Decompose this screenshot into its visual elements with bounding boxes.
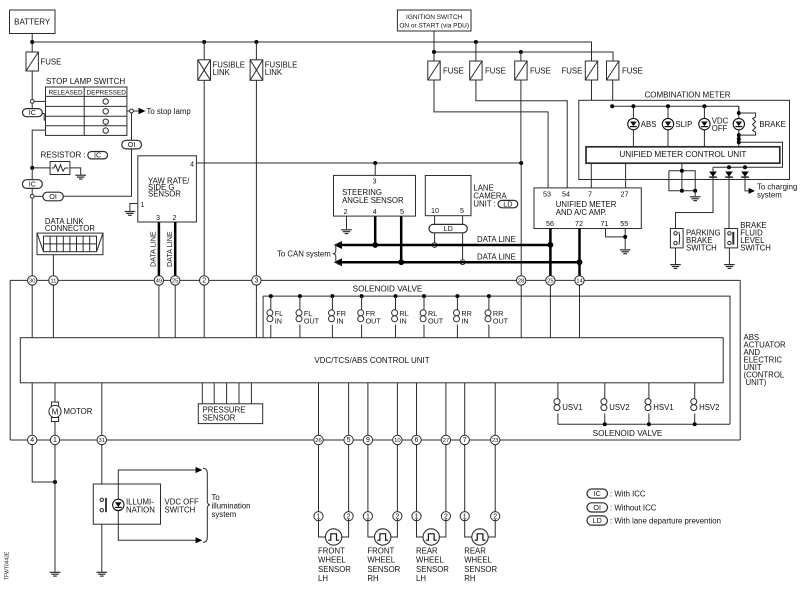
wire to ground	[694, 191, 696, 197]
svg-text:72: 72	[575, 219, 583, 228]
svg-text:SOLENOID VALVE: SOLENOID VALVE	[593, 429, 663, 438]
node steering pin3 junction	[373, 161, 377, 165]
wire control unit to pin27	[445, 383, 447, 440]
svg-text:6: 6	[415, 437, 419, 444]
node lane pin10 open circle	[432, 243, 437, 248]
node brake resistor bottom	[737, 133, 741, 137]
pin 1	[50, 435, 59, 444]
svg-text:FRONT: FRONT	[318, 547, 345, 556]
svg-text:WHEEL: WHEEL	[416, 556, 444, 565]
node battery junction	[30, 40, 34, 44]
fuse F5	[607, 61, 643, 80]
svg-text:IGNITION SWITCH: IGNITION SWITCH	[406, 14, 463, 21]
unified meter and A/C amp	[534, 188, 641, 229]
fuse F3	[515, 52, 551, 80]
solenoid HSV2	[691, 383, 720, 425]
wire pin1 to ground	[54, 444, 56, 572]
ground (umcu)	[690, 197, 701, 201]
wire lane pin5	[462, 216, 464, 260]
svg-text:IC: IC	[29, 180, 36, 189]
wire OI down and left	[63, 149, 131, 196]
fuse F0 battery fuse	[26, 52, 61, 71]
diode D2	[725, 172, 733, 178]
rear wheel sensor LH	[412, 444, 451, 583]
ground (pin1)	[50, 572, 61, 576]
fusible link 1	[198, 42, 245, 80]
wire fuse2 to pin54	[476, 80, 567, 188]
svg-text:FRONT: FRONT	[367, 547, 394, 556]
svg-text:LH: LH	[416, 574, 426, 583]
ground (yaw sensor)	[125, 212, 136, 216]
wire pin2 to control unit	[203, 285, 205, 338]
wire amp pin55 to ground	[624, 229, 626, 250]
wire pin3 to control unit	[255, 285, 257, 338]
svg-text:IN: IN	[461, 317, 468, 326]
svg-text:VDC/TCS/ABS CONTROL UNIT: VDC/TCS/ABS CONTROL UNIT	[314, 356, 429, 365]
svg-text:26: 26	[315, 438, 322, 444]
node diode3 anode	[743, 165, 747, 169]
node brake resistor top	[737, 111, 741, 115]
svg-text:OI: OI	[49, 192, 57, 201]
node fusible link 2 junction	[254, 40, 258, 44]
svg-text:55: 55	[620, 219, 628, 228]
fuse F4	[562, 61, 598, 80]
svg-text:2: 2	[344, 207, 348, 216]
svg-text:30: 30	[29, 279, 36, 285]
CAN line 2	[341, 261, 579, 264]
wire row4 to left bus	[32, 130, 45, 168]
pin 28	[517, 276, 526, 285]
svg-text:SENSOR: SENSOR	[464, 565, 497, 574]
svg-text:LD: LD	[444, 224, 453, 233]
node steering pin5 junction	[398, 259, 404, 265]
svg-text:31: 31	[99, 438, 106, 444]
wire solenoid return bus	[558, 423, 730, 425]
svg-text:COMBINATION METER: COMBINATION METER	[644, 90, 730, 99]
svg-text:ABS: ABS	[641, 120, 657, 129]
wire resistor left	[32, 167, 50, 169]
fuse F1	[428, 52, 464, 80]
wire row2 to stop lamp	[127, 110, 130, 112]
unified meter control unit	[586, 147, 780, 163]
capsule LD (lane pins)	[429, 224, 467, 233]
wire VDC lamp vertical	[703, 106, 705, 147]
svg-text:2: 2	[173, 213, 177, 222]
wire fusible link1 to pin 2	[203, 80, 205, 280]
svg-text:SENSOR: SENSOR	[203, 414, 236, 423]
pin 9	[363, 435, 372, 444]
svg-text:SENSOR: SENSOR	[416, 565, 449, 574]
wire brake lamp to diode bus	[713, 142, 783, 167]
wire pin30 to control unit	[31, 285, 33, 338]
arrow to stop lamp	[139, 108, 146, 114]
pin 6	[412, 435, 421, 444]
svg-text:TFWT0442E: TFWT0442E	[5, 551, 11, 580]
node CAN1 pin56	[548, 242, 554, 248]
pin 5	[344, 435, 353, 444]
combination meter box	[579, 90, 790, 179]
pin 3	[252, 276, 261, 285]
svg-text:WHEEL: WHEEL	[367, 556, 395, 565]
wire ABS lamp vertical	[632, 106, 634, 147]
svg-text:OUT: OUT	[304, 317, 320, 326]
wire control unit to pin4	[31, 383, 33, 440]
VDC/TCS/ABS control unit	[20, 338, 723, 383]
solenoid HSV1	[645, 383, 674, 425]
svg-text:9: 9	[366, 437, 370, 444]
wire diode1 to parking brake switch	[676, 177, 714, 228]
svg-text:54: 54	[562, 189, 570, 198]
svg-text:SENSOR: SENSOR	[318, 565, 351, 574]
node umcu gnd right	[693, 189, 697, 193]
svg-text:To CAN system: To CAN system	[277, 249, 331, 258]
svg-text:STOP LAMP SWITCH: STOP LAMP SWITCH	[46, 77, 125, 86]
solenoid USV2	[601, 383, 630, 425]
svg-text:RESISTOR :: RESISTOR :	[41, 151, 86, 160]
wire control unit to pin5	[348, 383, 350, 440]
svg-text:IC: IC	[594, 489, 601, 498]
legend capsule OI	[587, 503, 657, 513]
pin 27	[441, 435, 450, 444]
bracket to illumination system	[203, 468, 210, 542]
wire steering pin3 up	[374, 163, 376, 175]
lamp VDC OFF	[699, 118, 710, 129]
wire umcu pin7 to amp	[590, 163, 592, 188]
front wheel sensor LH	[314, 444, 353, 583]
pin 26	[314, 435, 323, 444]
lamp SLIP	[662, 118, 673, 129]
wire bus to IC2	[31, 168, 33, 180]
svg-text:USV1: USV1	[562, 403, 582, 412]
node umcu gnd top	[680, 169, 684, 173]
svg-text:BATTERY: BATTERY	[14, 18, 51, 27]
wire BRAKE lamp vertical	[738, 106, 740, 147]
svg-text:25: 25	[172, 279, 179, 285]
svg-text:REAR: REAR	[416, 547, 438, 556]
svg-text:49: 49	[156, 279, 163, 285]
svg-text:RELEASED: RELEASED	[49, 90, 83, 97]
solenoid FL OUT	[296, 294, 320, 338]
capsule IC (lower)	[22, 180, 42, 189]
node open circle row1	[30, 100, 34, 104]
data link connector	[37, 217, 103, 255]
resistor R1	[41, 151, 108, 175]
wire amp pin56 data	[549, 229, 552, 279]
svg-text:4: 4	[30, 437, 34, 444]
svg-text:OUT: OUT	[493, 317, 509, 326]
solenoid FR IN	[329, 294, 346, 338]
svg-text:7: 7	[588, 189, 592, 198]
wire steering pin4 data	[374, 216, 377, 245]
motor M1	[49, 383, 93, 440]
wire pin4 to pin1 line	[32, 444, 55, 482]
wire solenoid left leg	[262, 296, 264, 338]
svg-text:OFF: OFF	[712, 124, 728, 133]
pin 25 (amp)	[546, 276, 555, 285]
wire fuse0 down to stop lamp switch	[31, 71, 33, 100]
wire control unit to pin10	[396, 383, 398, 440]
svg-text:SLIP: SLIP	[675, 120, 692, 129]
pressure sensor	[198, 383, 262, 424]
svg-text:SWITCH: SWITCH	[165, 506, 196, 515]
illumination lamp	[113, 499, 124, 510]
pin 14	[575, 276, 584, 285]
wire IC to row3	[42, 114, 45, 121]
svg-text:3: 3	[156, 213, 160, 222]
solenoid FR OUT	[358, 294, 382, 338]
svg-text:RH: RH	[367, 574, 378, 583]
svg-text:IC: IC	[94, 151, 101, 160]
svg-text:DEPRESSED: DEPRESSED	[87, 90, 127, 97]
svg-text:OI: OI	[593, 503, 601, 512]
svg-text:WHEEL: WHEEL	[318, 556, 346, 565]
svg-text:28: 28	[518, 279, 525, 285]
node lamp bus VDC	[702, 104, 706, 108]
svg-text:3: 3	[254, 278, 258, 285]
wire illumination top arrow	[118, 470, 195, 499]
wire lamp bus	[612, 106, 739, 113]
ABS actuator and electric unit box	[10, 280, 786, 440]
diode D1	[712, 167, 714, 171]
resistor (brake lamp shunt)	[739, 113, 756, 135]
svg-text:USV2: USV2	[609, 403, 629, 412]
svg-text:REAR: REAR	[464, 547, 486, 556]
node HSV2 return	[693, 422, 697, 426]
lamp BRAKE	[733, 118, 744, 129]
wire control unit to pin26	[318, 383, 320, 440]
svg-text:OUT: OUT	[366, 317, 382, 326]
wire illumination bottom arrow	[118, 511, 195, 541]
svg-text:IN: IN	[336, 317, 343, 326]
capsule OI (below stop lamp)	[122, 140, 142, 149]
node open circle to stop lamp	[130, 109, 134, 113]
svg-text:DATA LINE: DATA LINE	[477, 252, 516, 261]
svg-text:FUSE: FUSE	[622, 67, 643, 76]
node ign junction fuse1	[432, 50, 436, 54]
steering angle sensor	[334, 175, 416, 216]
fuse F2	[470, 42, 506, 80]
fusible link 2	[250, 42, 297, 80]
svg-text:LINK: LINK	[265, 68, 283, 77]
svg-text:3: 3	[373, 177, 377, 186]
solenoid RR IN	[454, 294, 472, 338]
svg-text:FUSE: FUSE	[562, 67, 583, 76]
svg-text:MOTOR: MOTOR	[64, 407, 93, 416]
wire control unit to pin31	[101, 383, 103, 440]
wire pin31 to ground	[101, 444, 103, 572]
svg-text:FUSE: FUSE	[485, 67, 506, 76]
wire amp pin71 to pin55	[606, 229, 626, 237]
node lamp bus ABS	[631, 104, 635, 108]
svg-text:SWITCH: SWITCH	[740, 244, 771, 253]
svg-text:DATA LINE: DATA LINE	[149, 231, 158, 267]
pin 23	[491, 435, 500, 444]
legend capsule LD	[587, 516, 721, 526]
pin 25 (yaw)	[171, 276, 180, 285]
node brake lamp lower junctions	[737, 137, 741, 141]
bracket To CAN system	[333, 243, 342, 265]
svg-text:7: 7	[463, 437, 467, 444]
svg-text:SENSOR: SENSOR	[367, 565, 400, 574]
wire pin14 to control unit	[579, 285, 581, 338]
solenoid RL IN	[392, 294, 409, 338]
svg-text:53: 53	[543, 189, 551, 198]
wire diode2 to brake fluid switch	[728, 177, 730, 228]
svg-text:LINK: LINK	[213, 68, 231, 77]
svg-text:5: 5	[460, 206, 464, 215]
wire fuse3 down to pin 28	[520, 80, 522, 163]
svg-text:27: 27	[621, 189, 629, 198]
wire parking brake to ground	[675, 248, 677, 264]
svg-text:LD: LD	[593, 516, 602, 525]
node diode2 anode	[727, 165, 731, 169]
diode D3	[741, 172, 749, 178]
node fuse3 top junction	[519, 50, 523, 54]
svg-text:: With lane departure preventi: : With lane departure prevention	[610, 516, 721, 525]
wire steering pin2 to ground	[346, 216, 348, 229]
ignition switch	[397, 10, 471, 31]
svg-text:UNIT :: UNIT :	[473, 200, 495, 209]
svg-text:system: system	[757, 191, 782, 200]
node pin71/55 junction	[623, 235, 627, 239]
wire data line yaw pin2	[174, 222, 177, 278]
solenoid USV1	[554, 383, 583, 425]
svg-text:RH: RH	[464, 574, 475, 583]
wire IC2 to open circle	[31, 188, 33, 194]
svg-text:56: 56	[546, 219, 554, 228]
parking brake switch	[670, 229, 720, 253]
solenoid FL IN	[267, 294, 283, 338]
wire data line yaw pin3	[158, 222, 161, 278]
node HSV1 return	[647, 422, 651, 426]
svg-text:HSV2: HSV2	[699, 403, 719, 412]
svg-text:OUT: OUT	[428, 317, 444, 326]
svg-text:DATA LINE: DATA LINE	[165, 231, 174, 267]
node umcu gnd bottom	[680, 189, 684, 193]
wire pin25 to control unit	[174, 285, 176, 338]
svg-text:FUSE: FUSE	[530, 67, 551, 76]
svg-text:SWITCH: SWITCH	[686, 244, 717, 253]
wire ignition down	[433, 31, 435, 52]
wire battery to bus	[31, 34, 33, 53]
svg-text:: Without ICC: : Without ICC	[610, 503, 657, 512]
wire dlc to pin 11	[52, 255, 54, 281]
wire yaw pin1 to ground	[130, 204, 138, 212]
wire resistor right to ground	[70, 168, 81, 175]
wire control unit to pin7	[464, 383, 466, 440]
node lamp bus SLIP	[666, 104, 670, 108]
svg-text:27: 27	[443, 438, 450, 444]
svg-text:IN: IN	[400, 317, 407, 326]
svg-text:M: M	[52, 408, 59, 417]
wire amp pin72 data	[578, 229, 581, 279]
svg-text:SENSOR: SENSOR	[148, 190, 181, 199]
stop lamp switch S1	[46, 77, 127, 135]
svg-text:FUSE: FUSE	[443, 67, 464, 76]
svg-text:UNIT): UNIT)	[746, 378, 767, 387]
svg-text:HSV1: HSV1	[653, 403, 673, 412]
node steering pin4 junction	[372, 242, 378, 248]
svg-text:CONNECTOR: CONNECTOR	[45, 224, 95, 233]
CAN line 1	[341, 244, 550, 247]
svg-text:NATION: NATION	[126, 506, 155, 515]
pin 7	[460, 435, 469, 444]
wire control unit to pin23	[494, 383, 496, 440]
node resistor junction	[30, 166, 34, 170]
VDC OFF switch box	[93, 484, 199, 524]
svg-text:4: 4	[373, 207, 377, 216]
wire circle to IC	[31, 103, 33, 108]
svg-text:LD: LD	[503, 199, 512, 208]
svg-text:ANGLE SENSOR: ANGLE SENSOR	[342, 196, 404, 205]
lamp ABS	[628, 118, 639, 129]
svg-text:14: 14	[576, 279, 583, 285]
pin 31	[97, 435, 106, 444]
wire control unit to pin9	[367, 383, 369, 440]
svg-text:5: 5	[400, 207, 404, 216]
svg-text:71: 71	[601, 219, 609, 228]
wire umcu pin27 to amp	[625, 163, 627, 188]
wire top bus y42	[32, 42, 591, 61]
arrow CAN1	[334, 241, 342, 249]
wire left bus down to pin 30	[31, 198, 33, 280]
wire open circle to OI capsule	[34, 195, 43, 197]
svg-text:2: 2	[202, 278, 206, 285]
node lane pin5 open circle	[460, 260, 465, 265]
ground (brake fluid)	[724, 265, 735, 269]
pin 11	[49, 276, 58, 285]
svg-text:BRAKE: BRAKE	[759, 120, 785, 129]
svg-text:5: 5	[347, 437, 351, 444]
node open circle OI	[30, 194, 34, 198]
arrow CAN2	[334, 258, 342, 266]
svg-text:23: 23	[492, 438, 499, 444]
front wheel sensor RH	[363, 444, 402, 583]
wire pin49 to control unit	[158, 285, 160, 338]
svg-text:25: 25	[547, 279, 554, 285]
wire yaw pin4 to fuse3 line	[196, 162, 521, 164]
wire ign bus y52	[434, 52, 613, 61]
svg-text:: With ICC: : With ICC	[610, 490, 646, 499]
svg-text:10: 10	[431, 206, 439, 215]
svg-text:FUSE: FUSE	[41, 58, 62, 67]
lane camera unit	[425, 176, 517, 216]
svg-text:To stop lamp: To stop lamp	[147, 107, 192, 116]
solenoid RL OUT	[420, 294, 444, 338]
node USV2 return	[603, 422, 607, 426]
svg-text:UNIFIED METER CONTROL UNIT: UNIFIED METER CONTROL UNIT	[619, 150, 746, 159]
svg-text:LH: LH	[318, 574, 328, 583]
node fusible link 1 junction	[202, 40, 206, 44]
svg-text:system: system	[212, 510, 237, 519]
wire fusible link2 to pin 3	[255, 80, 257, 280]
svg-text:4: 4	[190, 160, 194, 169]
yaw rate/side G sensor	[138, 156, 197, 222]
svg-text:11: 11	[50, 279, 56, 285]
pin 2	[200, 276, 209, 285]
brake fluid level switch	[725, 221, 771, 253]
node pin4/pin1 junction	[53, 480, 57, 484]
capsule OI (lower)	[43, 192, 63, 201]
svg-text:AND A/C AMP.: AND A/C AMP.	[556, 208, 607, 217]
wire pin28 to control unit	[520, 285, 522, 338]
wire fuse1 to pin53	[434, 80, 548, 188]
node lamp bus fuse5	[610, 104, 614, 108]
pin 10	[393, 435, 402, 444]
pin 4	[28, 435, 37, 444]
svg-text:SOLENOID VALVE: SOLENOID VALVE	[353, 284, 423, 293]
wire pin25b to control unit	[549, 285, 551, 338]
